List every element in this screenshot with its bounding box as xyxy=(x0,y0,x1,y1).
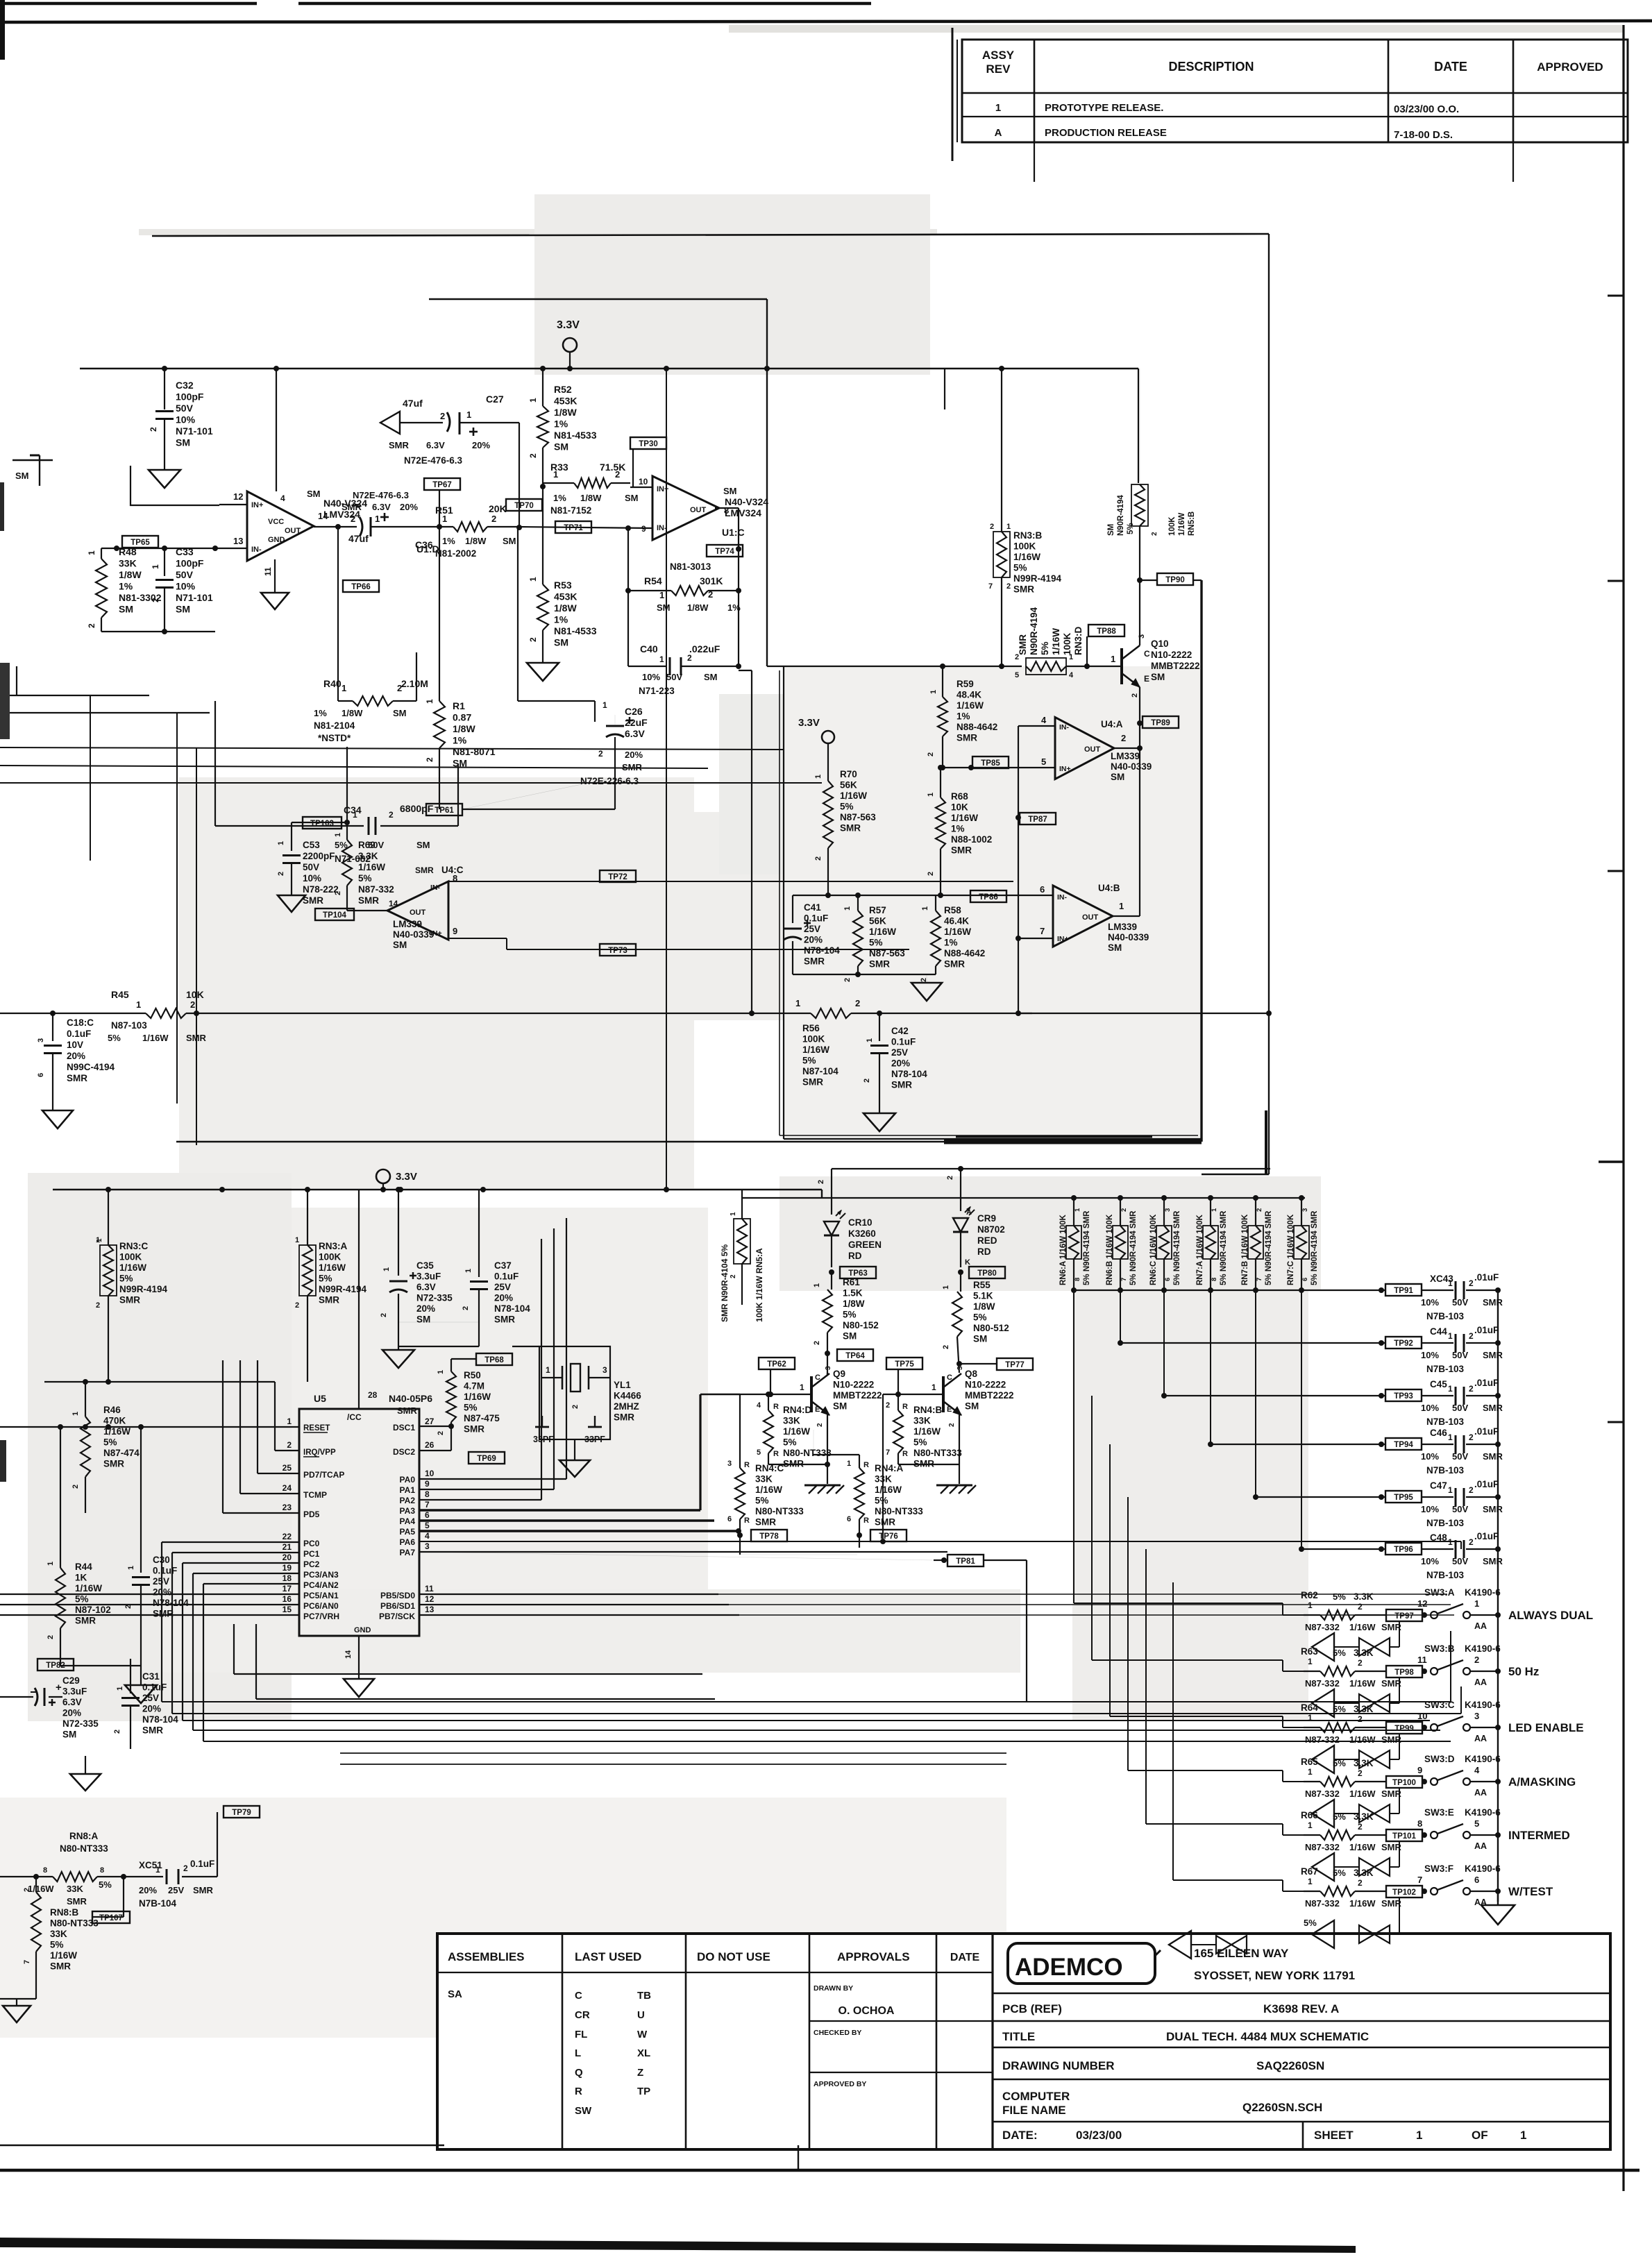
svg-text:4: 4 xyxy=(757,1401,761,1410)
svg-text:3.3K: 3.3K xyxy=(1354,1868,1374,1878)
testpoint TP64 xyxy=(825,1351,830,1356)
svg-text:PB5/SD0: PB5/SD0 xyxy=(380,1591,415,1600)
svg-text:R55: R55 xyxy=(973,1280,991,1290)
svg-text:1/16W: 1/16W xyxy=(875,1485,902,1495)
svg-text:5%: 5% xyxy=(103,1437,117,1448)
resistor R70 xyxy=(823,781,833,848)
svg-text:1: 1 xyxy=(602,700,607,710)
svg-text:1: 1 xyxy=(1474,1598,1479,1609)
capacitor C48 xyxy=(1422,1548,1453,1550)
svg-text:2: 2 xyxy=(1358,1658,1363,1668)
ground below switch bus xyxy=(1497,1891,1499,1905)
svg-text:1/16W: 1/16W xyxy=(319,1262,346,1273)
svg-text:R44: R44 xyxy=(75,1562,92,1572)
svg-text:R48: R48 xyxy=(119,546,137,557)
svg-text:1: 1 xyxy=(71,1412,80,1416)
revision table row line 1 xyxy=(962,116,1628,117)
svg-text:2: 2 xyxy=(96,1301,100,1310)
svg-text:O. OCHOA: O. OCHOA xyxy=(838,2005,895,2017)
svg-text:6.3V: 6.3V xyxy=(426,440,445,450)
svg-text:1/16W: 1/16W xyxy=(956,700,984,711)
resistor RN8:B xyxy=(35,1877,37,1892)
svg-text:2: 2 xyxy=(389,810,394,820)
svg-text:5%: 5% xyxy=(1333,1648,1346,1658)
svg-text:1: 1 xyxy=(921,906,929,911)
svg-text:R45: R45 xyxy=(111,989,129,1000)
svg-text:SM: SM xyxy=(62,1730,76,1740)
svg-text:TP99: TP99 xyxy=(1394,1725,1414,1733)
svg-text:1/16W: 1/16W xyxy=(1349,1734,1376,1745)
svg-text:.01uF: .01uF xyxy=(1474,1325,1499,1335)
svg-text:N87-563: N87-563 xyxy=(840,812,876,822)
svg-text:TB: TB xyxy=(637,1990,651,2002)
node on bus at 3.3V tap xyxy=(567,366,573,371)
wire left web y1077 xyxy=(0,747,784,750)
svg-text:1: 1 xyxy=(1448,1384,1453,1394)
testpoint TP98 xyxy=(1386,1666,1422,1677)
svg-text:1/8W: 1/8W xyxy=(465,536,487,546)
svg-text:47uf: 47uf xyxy=(348,533,369,544)
ground below U5 xyxy=(344,1679,374,1697)
svg-text:ALWAYS DUAL: ALWAYS DUAL xyxy=(1508,1609,1593,1622)
svg-text:RN4:C: RN4:C xyxy=(755,1463,784,1473)
testpoint TP87 xyxy=(1020,813,1056,825)
svg-text:9: 9 xyxy=(453,926,457,936)
sheet border right tick 1 xyxy=(1608,295,1624,297)
svg-text:50V: 50V xyxy=(1452,1556,1468,1566)
ground below C32 xyxy=(149,470,180,488)
svg-text:K4466: K4466 xyxy=(614,1391,641,1401)
svg-text:1/16W: 1/16W xyxy=(142,1033,169,1043)
svg-text:1: 1 xyxy=(425,699,435,704)
svg-text:3.3K: 3.3K xyxy=(1354,1758,1374,1768)
svg-text:1/16W: 1/16W xyxy=(1178,513,1186,536)
testpoint TP82 xyxy=(37,1659,74,1671)
svg-text:U4:C: U4:C xyxy=(441,865,464,875)
svg-text:C42: C42 xyxy=(891,1026,909,1036)
testpoint TP77 xyxy=(956,1361,962,1367)
svg-text:20%: 20% xyxy=(891,1058,910,1069)
wire band y2452 long xyxy=(162,1701,1451,1702)
svg-text:1/16W: 1/16W xyxy=(755,1485,782,1495)
svg-text:2: 2 xyxy=(295,1301,299,1310)
svg-text:2: 2 xyxy=(813,1341,821,1345)
svg-text:453K: 453K xyxy=(554,591,577,602)
svg-text:TP67: TP67 xyxy=(432,481,452,489)
svg-text:TP89: TP89 xyxy=(1151,719,1170,727)
svg-text:APPROVALS: APPROVALS xyxy=(837,1950,910,1963)
svg-text:2: 2 xyxy=(708,589,713,600)
svg-text:GND: GND xyxy=(354,1626,371,1634)
wire row y1991 xyxy=(44,1381,212,1383)
svg-text:OUT: OUT xyxy=(690,506,707,514)
svg-text:50V: 50V xyxy=(1452,1350,1468,1360)
svg-text:YL1: YL1 xyxy=(614,1380,631,1390)
svg-text:PC5/AN1: PC5/AN1 xyxy=(303,1591,339,1600)
svg-text:100K: 100K xyxy=(119,1252,142,1262)
testpoint TP69 xyxy=(469,1452,505,1464)
wire band y2469 long xyxy=(172,1713,1461,1714)
svg-text:7: 7 xyxy=(1120,1278,1128,1281)
svg-text:PC7/VRH: PC7/VRH xyxy=(303,1612,339,1621)
svg-text:3.3K: 3.3K xyxy=(358,851,378,861)
testpoint TP75 xyxy=(886,1358,922,1369)
svg-text:TP107: TP107 xyxy=(99,1914,123,1922)
wire U5 PC5 to left edge xyxy=(0,1594,299,1595)
svg-text:SMR: SMR xyxy=(951,845,972,856)
wire row C47 xyxy=(1255,1290,1256,1497)
svg-text:2: 2 xyxy=(1469,1537,1474,1547)
svg-text:C32: C32 xyxy=(176,380,194,391)
svg-text:25V: 25V xyxy=(891,1047,908,1058)
svg-text:7: 7 xyxy=(988,582,993,591)
svg-text:1/16W: 1/16W xyxy=(28,1884,54,1894)
wire Q10 collector up xyxy=(1139,580,1140,645)
svg-text:DSC1: DSC1 xyxy=(393,1423,415,1432)
svg-text:N8702: N8702 xyxy=(977,1224,1005,1235)
title block col ASSEMBLIES right edge xyxy=(562,1934,564,2149)
svg-text:SM: SM xyxy=(503,536,516,546)
svg-text:N81-8071: N81-8071 xyxy=(453,746,496,757)
svg-text:CR10: CR10 xyxy=(848,1217,873,1228)
testpoint TP92 xyxy=(1385,1337,1422,1349)
svg-text:13: 13 xyxy=(233,536,243,546)
svg-text:SMR: SMR xyxy=(1483,1556,1503,1566)
svg-text:LM339: LM339 xyxy=(1108,922,1137,932)
svg-text:6: 6 xyxy=(1040,884,1045,895)
wire RN3:D to Q10 base xyxy=(1066,666,1122,667)
wire feeder SW3E xyxy=(1145,1549,1147,1824)
svg-text:N7B-103: N7B-103 xyxy=(1426,1417,1465,1427)
svg-text:N99R-4194: N99R-4194 xyxy=(319,1284,367,1294)
svg-text:15: 15 xyxy=(283,1605,292,1614)
buffer triangles under R65 xyxy=(1312,1800,1334,1827)
crystal caps 33PF xyxy=(541,1416,543,1427)
svg-text:VCC: VCC xyxy=(268,518,284,526)
testpoint TP94 xyxy=(1385,1438,1422,1450)
svg-text:2: 2 xyxy=(287,1440,292,1450)
svg-text:IN-: IN- xyxy=(430,884,441,892)
svg-text:2: 2 xyxy=(1358,1878,1363,1888)
svg-text:RD: RD xyxy=(977,1246,991,1257)
testpoint TP90 xyxy=(1140,580,1157,581)
svg-text:1/8W: 1/8W xyxy=(453,723,475,734)
svg-text:1: 1 xyxy=(1111,654,1115,664)
wire bank top bus xyxy=(742,1197,1305,1199)
svg-text:TITLE: TITLE xyxy=(1002,2030,1035,2043)
svg-text:3: 3 xyxy=(1474,1711,1479,1721)
svg-text:N81-7152: N81-7152 xyxy=(550,505,591,516)
svg-text:3: 3 xyxy=(956,1366,964,1370)
svg-text:TP90: TP90 xyxy=(1165,576,1185,584)
svg-text:1/8W: 1/8W xyxy=(973,1301,995,1312)
svg-text:R50: R50 xyxy=(464,1370,481,1380)
svg-text:SW3:B: SW3:B xyxy=(1424,1643,1455,1654)
svg-text:5%: 5% xyxy=(973,1312,987,1323)
svg-text:R51: R51 xyxy=(435,505,453,516)
svg-text:SM: SM xyxy=(176,437,190,448)
svg-text:PC4/AN2: PC4/AN2 xyxy=(303,1580,339,1590)
wire row XC43 xyxy=(1074,1290,1385,1291)
capacitor C27 xyxy=(447,412,450,432)
svg-text:0.1uF: 0.1uF xyxy=(891,1037,916,1047)
svg-text:SMR: SMR xyxy=(358,895,379,906)
svg-text:2: 2 xyxy=(817,1180,825,1184)
svg-text:FILE NAME: FILE NAME xyxy=(1002,2104,1066,2117)
svg-text:PCB (REF): PCB (REF) xyxy=(1002,2002,1062,2015)
svg-text:3: 3 xyxy=(37,1038,45,1042)
svg-text:TP71: TP71 xyxy=(564,524,583,532)
svg-text:1%: 1% xyxy=(956,711,970,722)
svg-text:1: 1 xyxy=(995,102,1001,114)
sheet border right tick 3 xyxy=(1608,870,1624,872)
svg-text:C53: C53 xyxy=(303,840,320,850)
testpoint TP103 xyxy=(303,817,342,829)
svg-text:K: K xyxy=(965,1258,970,1267)
svg-text:SMR: SMR xyxy=(389,440,410,450)
svg-text:SMR: SMR xyxy=(1483,1350,1503,1360)
svg-text:8: 8 xyxy=(43,1866,47,1875)
svg-text:SM: SM xyxy=(393,708,407,718)
svg-text:1.5K: 1.5K xyxy=(843,1288,863,1299)
svg-text:C: C xyxy=(815,1373,820,1382)
capacitor C42 xyxy=(879,1013,880,1041)
svg-text:6: 6 xyxy=(1474,1875,1479,1885)
svg-text:1/8W: 1/8W xyxy=(342,708,363,718)
svg-text:25: 25 xyxy=(283,1463,292,1473)
testpoint TP85 xyxy=(972,756,1009,768)
capacitor C30 xyxy=(140,1427,142,1573)
svg-text:SMR: SMR xyxy=(75,1616,96,1626)
svg-text:PRODUCTION RELEASE: PRODUCTION RELEASE xyxy=(1045,127,1167,139)
svg-text:TP74: TP74 xyxy=(715,548,734,556)
svg-text:2: 2 xyxy=(687,653,692,663)
svg-text:TP62: TP62 xyxy=(767,1360,786,1369)
svg-text:20%: 20% xyxy=(625,750,643,760)
svg-text:TP69: TP69 xyxy=(477,1455,496,1463)
svg-text:33K: 33K xyxy=(875,1474,892,1485)
svg-text:SMR: SMR xyxy=(802,1077,823,1088)
svg-text:2: 2 xyxy=(863,1079,871,1083)
svg-text:2: 2 xyxy=(277,872,285,876)
svg-text:R53: R53 xyxy=(554,580,572,591)
svg-text:1: 1 xyxy=(730,1212,737,1216)
svg-text:K4190-6: K4190-6 xyxy=(1465,1754,1501,1764)
ground Q8 earth xyxy=(936,1485,972,1487)
title block ADEMCO row line xyxy=(993,1993,1610,1995)
svg-text:C40: C40 xyxy=(640,643,658,654)
svg-text:10K: 10K xyxy=(951,802,968,813)
svg-text:N7B-104: N7B-104 xyxy=(139,1898,177,1909)
svg-text:25V: 25V xyxy=(142,1693,159,1703)
svg-text:W/TEST: W/TEST xyxy=(1508,1885,1553,1898)
svg-text:7-18-00 D.S.: 7-18-00 D.S. xyxy=(1394,129,1453,141)
svg-text:SMR: SMR xyxy=(67,1073,87,1083)
wire U5 PC2 xyxy=(183,1562,299,1564)
title block header underline LAST USED xyxy=(562,1972,686,1973)
IC U5 body xyxy=(299,1409,419,1636)
svg-text:RN7:A 1/16W 100K: RN7:A 1/16W 100K xyxy=(1196,1214,1204,1285)
svg-text:RN5:B: RN5:B xyxy=(1188,512,1196,536)
wire U4:B out xyxy=(1113,915,1140,917)
svg-text:20%: 20% xyxy=(67,1051,85,1061)
svg-text:SMR: SMR xyxy=(622,762,643,772)
capacitor C18:C xyxy=(52,1013,53,1041)
svg-text:1%: 1% xyxy=(442,536,455,546)
svg-text:22uF: 22uF xyxy=(625,717,648,728)
svg-text:Q: Q xyxy=(575,2067,583,2079)
wire main 3.3V bus xyxy=(80,368,1138,370)
svg-text:1: 1 xyxy=(382,1267,391,1271)
svg-text:2: 2 xyxy=(425,757,435,762)
svg-text:PC2: PC2 xyxy=(303,1559,320,1569)
resistor RN3:D xyxy=(1026,661,1066,671)
svg-text:R: R xyxy=(744,1461,750,1469)
testpoint TP73 xyxy=(600,944,636,956)
svg-text:28: 28 xyxy=(368,1390,378,1400)
svg-text:25V: 25V xyxy=(804,924,820,934)
svg-text:2: 2 xyxy=(1006,582,1011,591)
svg-text:9: 9 xyxy=(425,1479,430,1489)
svg-text:TP92: TP92 xyxy=(1394,1339,1413,1348)
svg-text:14: 14 xyxy=(344,1650,353,1659)
svg-text:R: R xyxy=(863,1461,869,1469)
svg-text:2: 2 xyxy=(1469,1331,1474,1341)
svg-text:48.4K: 48.4K xyxy=(956,690,981,700)
svg-text:R59: R59 xyxy=(956,679,974,689)
wire feeder SW3D xyxy=(1127,1497,1129,1770)
svg-text:TP72: TP72 xyxy=(608,873,627,881)
resistor R53 xyxy=(542,483,543,584)
wire y430 segment xyxy=(429,298,767,300)
node on bus at C32 xyxy=(162,366,167,371)
svg-text:12: 12 xyxy=(425,1594,435,1604)
svg-text:2: 2 xyxy=(87,623,96,628)
capacitor C34 loop xyxy=(214,701,216,826)
svg-text:20%: 20% xyxy=(142,1704,161,1714)
svg-text:1: 1 xyxy=(277,841,285,845)
svg-text:PA5: PA5 xyxy=(400,1527,416,1537)
wire U5 pin25 xyxy=(258,1473,299,1474)
svg-text:C37: C37 xyxy=(494,1260,512,1271)
capacitor C27 row arrow xyxy=(380,412,400,434)
svg-text:N87-474: N87-474 xyxy=(103,1448,140,1458)
testpoint TP91 xyxy=(1385,1284,1422,1296)
svg-text:GREEN: GREEN xyxy=(848,1240,882,1250)
svg-text:N87-563: N87-563 xyxy=(869,948,905,958)
svg-text:.01uF: .01uF xyxy=(1474,1479,1499,1489)
svg-text:SM: SM xyxy=(119,604,133,615)
svg-text:2: 2 xyxy=(1469,1432,1474,1442)
svg-text:470K: 470K xyxy=(103,1416,126,1426)
svg-text:1: 1 xyxy=(136,999,141,1010)
svg-text:SMR: SMR xyxy=(869,959,890,970)
wire vertical x1828 xyxy=(1268,234,1270,1174)
svg-text:1: 1 xyxy=(1448,1485,1453,1495)
svg-text:+: + xyxy=(56,1682,62,1693)
switch SW3:B xyxy=(1422,1668,1427,1674)
svg-text:N80-NT333: N80-NT333 xyxy=(913,1448,962,1458)
resistor R1 xyxy=(439,694,440,701)
resistor R52 xyxy=(542,369,543,406)
wire band y2412 xyxy=(234,1673,702,1675)
resistor R65 xyxy=(1304,1781,1320,1782)
svg-text:TP86: TP86 xyxy=(979,893,998,902)
svg-text:33K: 33K xyxy=(913,1416,931,1426)
svg-text:C: C xyxy=(1144,649,1150,659)
crystal YL1 box xyxy=(539,1346,610,1439)
svg-text:1: 1 xyxy=(1416,2129,1422,2142)
svg-text:5%: 5% xyxy=(1333,1811,1346,1822)
power 3.3V bubble top xyxy=(563,338,577,352)
wire PA3 thick xyxy=(419,1509,700,1512)
svg-text:TP64: TP64 xyxy=(845,1352,865,1360)
svg-text:N87-332: N87-332 xyxy=(1305,1622,1340,1632)
svg-text:Q9: Q9 xyxy=(833,1369,845,1379)
op-amp U1:D xyxy=(247,491,314,561)
svg-text:U4:A: U4:A xyxy=(1101,719,1123,729)
wire Q10 emitter down xyxy=(1139,687,1140,750)
svg-text:6: 6 xyxy=(37,1073,45,1077)
svg-text:100K: 100K xyxy=(319,1252,342,1262)
svg-text:0.1uF: 0.1uF xyxy=(153,1566,177,1576)
svg-text:A: A xyxy=(995,127,1002,139)
wire row C48 xyxy=(1301,1290,1302,1549)
svg-text:1: 1 xyxy=(1308,1820,1313,1830)
svg-text:2: 2 xyxy=(1358,1714,1363,1724)
svg-text:7: 7 xyxy=(23,1960,31,1964)
svg-text:N78-104: N78-104 xyxy=(804,945,840,956)
sheet border top main line xyxy=(0,21,1652,22)
wire DSC2 xyxy=(419,1450,451,1451)
wire PB7 xyxy=(419,1614,739,1616)
svg-text:50 Hz: 50 Hz xyxy=(1508,1665,1539,1678)
wire U4:B in+ row xyxy=(1018,938,1053,939)
svg-text:5%: 5% xyxy=(1333,1591,1346,1602)
wire U4:A in- loop xyxy=(1018,725,1055,727)
svg-text:3.3uF: 3.3uF xyxy=(62,1687,87,1697)
resistor R57 xyxy=(857,895,859,911)
svg-text:IN+: IN+ xyxy=(251,501,263,509)
svg-text:RN6:C 1/16W 100K: RN6:C 1/16W 100K xyxy=(1149,1214,1158,1285)
svg-text:1: 1 xyxy=(942,1285,950,1290)
testpoint TP68 xyxy=(476,1353,512,1365)
svg-text:N72-335: N72-335 xyxy=(416,1293,453,1303)
svg-text:PC0: PC0 xyxy=(303,1539,320,1548)
svg-text:1: 1 xyxy=(466,409,471,420)
svg-text:1/16W: 1/16W xyxy=(1349,1789,1376,1799)
svg-text:20%: 20% xyxy=(494,1293,513,1303)
resistor RN4:B xyxy=(897,1394,899,1410)
svg-text:TP61: TP61 xyxy=(435,806,454,815)
svg-text:20%: 20% xyxy=(416,1303,435,1314)
svg-text:6.3V: 6.3V xyxy=(416,1282,436,1292)
svg-text:LAST USED: LAST USED xyxy=(575,1950,641,1963)
svg-text:R67: R67 xyxy=(1301,1866,1318,1877)
svg-text:2: 2 xyxy=(1131,693,1139,698)
svg-text:MMBT2222: MMBT2222 xyxy=(965,1390,1014,1401)
resistor RN5:A xyxy=(741,1190,743,1219)
svg-text:SM: SM xyxy=(833,1401,847,1412)
testpoint TP61 xyxy=(426,804,462,815)
svg-text:N87-332: N87-332 xyxy=(1305,1898,1340,1909)
wire U4:C in- row xyxy=(448,881,1013,882)
wire rail y1684 xyxy=(832,1168,1270,1169)
svg-text:TP80: TP80 xyxy=(977,1269,997,1278)
svg-text:5%: 5% xyxy=(755,1496,769,1506)
svg-text:TP77: TP77 xyxy=(1005,1361,1025,1369)
svg-text:5: 5 xyxy=(1474,1818,1479,1829)
